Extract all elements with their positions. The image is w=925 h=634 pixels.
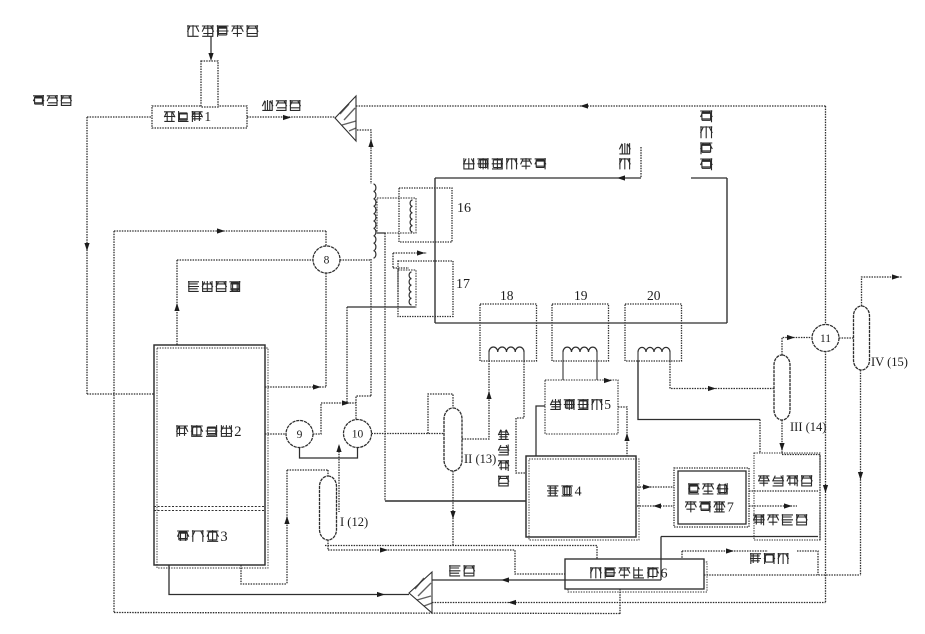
arrow right on recycle top edge <box>217 228 225 233</box>
wire cold-end gas to ejector <box>247 116 335 118</box>
wire stack coolant return to tank 5 <box>618 407 627 456</box>
separator IV(15) <box>854 306 870 370</box>
wire riser to condenser I(12) <box>286 470 288 584</box>
separator I(12) <box>320 476 337 540</box>
heat exchanger 20 coil <box>638 352 670 361</box>
vortex tube 1 body <box>152 106 247 128</box>
heat exchanger 17 coil <box>409 272 411 305</box>
heat exchanger 18 coil <box>489 352 524 361</box>
arrow down on III(14) drain <box>779 443 784 451</box>
wire tank 5 to stack coolant in <box>536 406 545 456</box>
wire tap water stub into purifier <box>681 551 683 559</box>
arrow down on pump 11 column <box>823 485 828 493</box>
label 涡流管1 (vortex tube 1) <box>164 109 211 124</box>
wire left main vertical (hot end gas) <box>86 117 88 394</box>
arrow down on II(13) drain <box>450 511 455 519</box>
arrow exhaust outlet <box>892 274 900 279</box>
wire hot water riser <box>726 178 728 323</box>
wire tap water from right side <box>797 551 818 575</box>
wire top recycle line <box>356 105 826 107</box>
wire hydrogen gas to pump 8 <box>177 259 313 261</box>
wire bottom long line to water purifier <box>114 613 620 614</box>
heat exchanger 17 inner box <box>398 270 416 307</box>
heat exchanger 19 coil <box>563 352 597 380</box>
svg-text:2: 2 <box>234 424 241 440</box>
wire into HX17 <box>393 252 427 254</box>
heat exchanger 16 shell (dotted) <box>399 188 452 242</box>
wire HX20 to humidifier area <box>638 361 760 420</box>
arrow cold-end gas right <box>283 115 291 120</box>
svg-text:16: 16 <box>457 201 471 216</box>
arrow on tank 5 top edge <box>604 378 612 383</box>
wire recycle left edge down to bottom <box>113 231 115 613</box>
arrow left on recycle air line <box>508 600 516 605</box>
wire pump 9/10 bottom U link <box>300 448 358 459</box>
wire fresh air into humidifier <box>749 505 797 507</box>
wire into pump 8 top <box>325 231 327 246</box>
wire pump 11 column down to recycle <box>825 351 827 602</box>
water purifier scan shadow <box>568 562 707 592</box>
wire into condenser I(12) top <box>287 469 328 471</box>
wire HX16 coil down to ejector pump 10 <box>370 259 372 396</box>
separator III(14) <box>774 355 790 420</box>
svg-text:7: 7 <box>727 501 734 516</box>
vortex tube 1 vertical inlet <box>201 61 218 107</box>
wire drain up into ejector 10 <box>338 446 340 512</box>
wire hydrogen riser from reformer <box>176 260 178 345</box>
heat exchanger 16 inner coil <box>410 200 412 232</box>
wire pump 9 up elbow <box>313 403 321 434</box>
arrow right into ejector 10 <box>342 400 350 405</box>
arrow left humidifier to stack <box>653 503 661 508</box>
arrow right on burner air line <box>377 592 385 597</box>
wire burner air line to blower apex <box>169 565 409 595</box>
wire HX16 to anode feed line <box>384 233 386 501</box>
fuel cell stack 4 scan shadow <box>529 459 639 540</box>
label 换热器7 (humidifier HX 7) <box>685 501 734 516</box>
label 热水供热 (hot water supply) <box>700 110 712 170</box>
wire HX17 elbow <box>392 253 394 268</box>
wire IV(15) drain down <box>860 370 862 575</box>
arrow up on coolant return <box>624 433 629 441</box>
wire stack to humidifier 7 <box>637 486 674 488</box>
svg-text:I (12): I (12) <box>340 515 368 529</box>
label 重整制氢2 (reformer 2) <box>176 424 241 440</box>
wire pump 9 to ejector 10 <box>321 402 356 404</box>
heat exchanger 17 shell (dotted) <box>398 261 453 317</box>
wire III(14) drain down <box>781 420 783 454</box>
wire circulating water line <box>435 177 641 179</box>
wire hot end gas into reformer left <box>87 393 154 395</box>
arrow right toward pump 8 vertical <box>313 384 321 389</box>
wire drop to fresh-gas enclosure <box>759 420 761 454</box>
wire condenser I(12) top stub <box>327 470 329 476</box>
label 自来水 (tap water) <box>750 553 789 564</box>
label 燃烧室3 (combustion chamber 3) <box>177 529 228 545</box>
divider between reformer and burner <box>154 506 265 508</box>
wire separator II(13) drain <box>452 471 454 546</box>
arrow left on top recycle line <box>580 103 588 108</box>
wire ejector 10 to separator II(13) <box>372 433 445 435</box>
wire pump 11 to separator IV(15) <box>839 337 854 339</box>
heat exchanger 18 shell (dotted) <box>480 304 537 361</box>
wire tap water line <box>682 550 768 552</box>
arrow left on circulating water line <box>617 175 625 180</box>
label 高压净化气 (high-pressure purified gas) <box>187 25 258 37</box>
heat exchanger 16 inner box <box>377 198 416 233</box>
wire HX20 to separator III(14) <box>670 361 774 389</box>
wire hot-end gas left <box>87 116 152 118</box>
wire fresh air to enclosure <box>661 536 818 538</box>
label 外循环水换热 (external circ. water heating) <box>463 158 546 169</box>
label 阳极尾气 (anode tail gas) <box>758 475 812 486</box>
heat exchanger 19 shell (dotted) <box>552 304 609 361</box>
svg-text:20: 20 <box>647 288 661 303</box>
svg-text:11: 11 <box>820 333 831 345</box>
svg-text:1: 1 <box>204 109 211 124</box>
wire heating water through HX18/19/20 <box>435 322 727 324</box>
wire cathode feed from HX18 to stack <box>516 361 526 473</box>
wire recycle air to blower <box>432 602 826 604</box>
arrow down on IV(15) drain <box>858 472 863 480</box>
wire III(14) drain to enclosure edge <box>782 455 820 541</box>
membrane humidifier 7 inner <box>678 471 746 524</box>
wire HX17 outlet down <box>346 307 348 403</box>
heat exchanger 20 shell (dotted) <box>625 304 682 361</box>
arrow right on tap water line <box>726 548 734 553</box>
wire anode feed into stack <box>385 500 526 502</box>
wire exhaust out top right <box>862 277 903 306</box>
air blower (hatched triangle) <box>409 572 432 613</box>
wire blower fresh air out <box>432 579 661 581</box>
wire right vertical down to pump 11 <box>825 106 827 325</box>
svg-text:4: 4 <box>575 485 582 500</box>
wire condensate line into purifier <box>328 550 565 574</box>
wire reformer to pump 9 <box>265 433 286 435</box>
arrow on blower air line <box>501 577 509 582</box>
label 内循环水5 (internal circulating water 5) <box>550 397 611 412</box>
arrow right into pump 11 <box>787 335 795 340</box>
arrow on fresh air line <box>784 503 792 508</box>
svg-text:17: 17 <box>456 277 470 292</box>
label 电堆4 (stack 4) <box>547 485 582 500</box>
wire HX17 coil top link <box>393 267 409 269</box>
wire riser into water purifier bottom <box>619 589 621 615</box>
ejector (hatched triangle) <box>335 96 356 141</box>
svg-text:18: 18 <box>500 288 514 303</box>
svg-text:9: 9 <box>297 429 303 441</box>
wire III(14) top to pump 11 <box>782 338 811 356</box>
arrow up into ejector <box>368 139 373 147</box>
arrow right on condensate line <box>380 547 388 552</box>
svg-text:II (13): II (13) <box>464 452 496 466</box>
fuel cell stack 4 <box>526 456 636 537</box>
wire II(13) gas to HX18 coil <box>462 361 489 439</box>
separator II(13) <box>444 408 462 471</box>
arrow down into vortex tube <box>208 53 213 61</box>
arrow right into HX17 <box>417 250 425 255</box>
wire fresh air riser <box>660 537 662 581</box>
svg-text:IV (15): IV (15) <box>871 355 908 369</box>
pump 9 <box>286 421 313 448</box>
tail gas / fresh air enclosure (dotted) <box>754 453 820 540</box>
arrow right to separator III(14) <box>708 386 716 391</box>
pump 11 <box>812 325 839 352</box>
wire cold water down through HX16/17 <box>434 178 436 323</box>
wire hot water supply stub <box>691 177 727 179</box>
wire HX16 inner box bottom stub <box>377 232 385 234</box>
wire ejector bottom to HX16 coil <box>357 130 371 184</box>
reformer unit outline <box>154 345 265 565</box>
label 热端气 (hot end gas) <box>33 95 72 106</box>
ejector pump 10 <box>344 420 372 448</box>
wire pump 8 to HX16 coil bottom <box>340 259 371 261</box>
wire feed into vortex tube <box>210 36 212 54</box>
wire over into separator II(13) top <box>428 394 453 434</box>
pump 8 <box>313 246 340 273</box>
wire anode tail gas line <box>749 490 818 492</box>
svg-text:3: 3 <box>220 529 227 545</box>
wire condensate upper line into purifier top <box>325 546 597 560</box>
divider lower dotted line <box>154 510 265 512</box>
gas coil through HX16 <box>374 184 376 258</box>
label 阴极尾气 (cathode gas) <box>498 430 509 487</box>
arrow up on riser <box>284 516 289 524</box>
svg-text:5: 5 <box>604 397 611 412</box>
label 新鲜空气 (fresh air) <box>753 514 807 525</box>
svg-text:III (14): III (14) <box>790 420 826 434</box>
label 富氢气体 (hydrogen-rich gas) <box>188 281 240 292</box>
wire pump 8 bottom vertical <box>325 273 327 387</box>
wire condensate return to purifier <box>704 574 861 576</box>
wire humidifier 7 to stack <box>637 505 674 507</box>
wire reformer drain to riser <box>241 565 287 584</box>
internal circulating water tank 5 <box>545 380 618 434</box>
label 空气 (air) <box>449 565 475 576</box>
arrow right stack to humidifier <box>643 484 651 489</box>
wire I(12) bottom stub <box>327 540 329 550</box>
arrow down on left vertical <box>84 243 89 251</box>
wire recycle top edge <box>114 230 326 232</box>
arrow up into HX18 <box>486 391 491 399</box>
label 水净化系统6 (water purification system 6) <box>590 567 667 582</box>
label 冷水 (cold water) <box>619 143 630 169</box>
svg-text:19: 19 <box>574 288 588 303</box>
arrow up on hydrogen riser <box>174 303 179 311</box>
svg-text:8: 8 <box>324 255 330 267</box>
label 冷端气 (cold end gas) <box>262 100 300 111</box>
wire HX17 coil bottom line <box>347 306 415 308</box>
water purification system 6 <box>565 559 704 589</box>
label 膜增湿 <box>688 483 728 494</box>
svg-text:10: 10 <box>352 429 364 441</box>
membrane humidifier 7 outer (dotted) <box>674 468 749 527</box>
wire elbow into pump 10 top <box>356 396 371 419</box>
arrow up at ejector 10 underside <box>336 444 341 452</box>
reformer unit scan shadow <box>157 348 268 568</box>
wire cold water inlet drop <box>640 147 642 178</box>
wire reformer right to pump 8 line <box>265 386 326 388</box>
